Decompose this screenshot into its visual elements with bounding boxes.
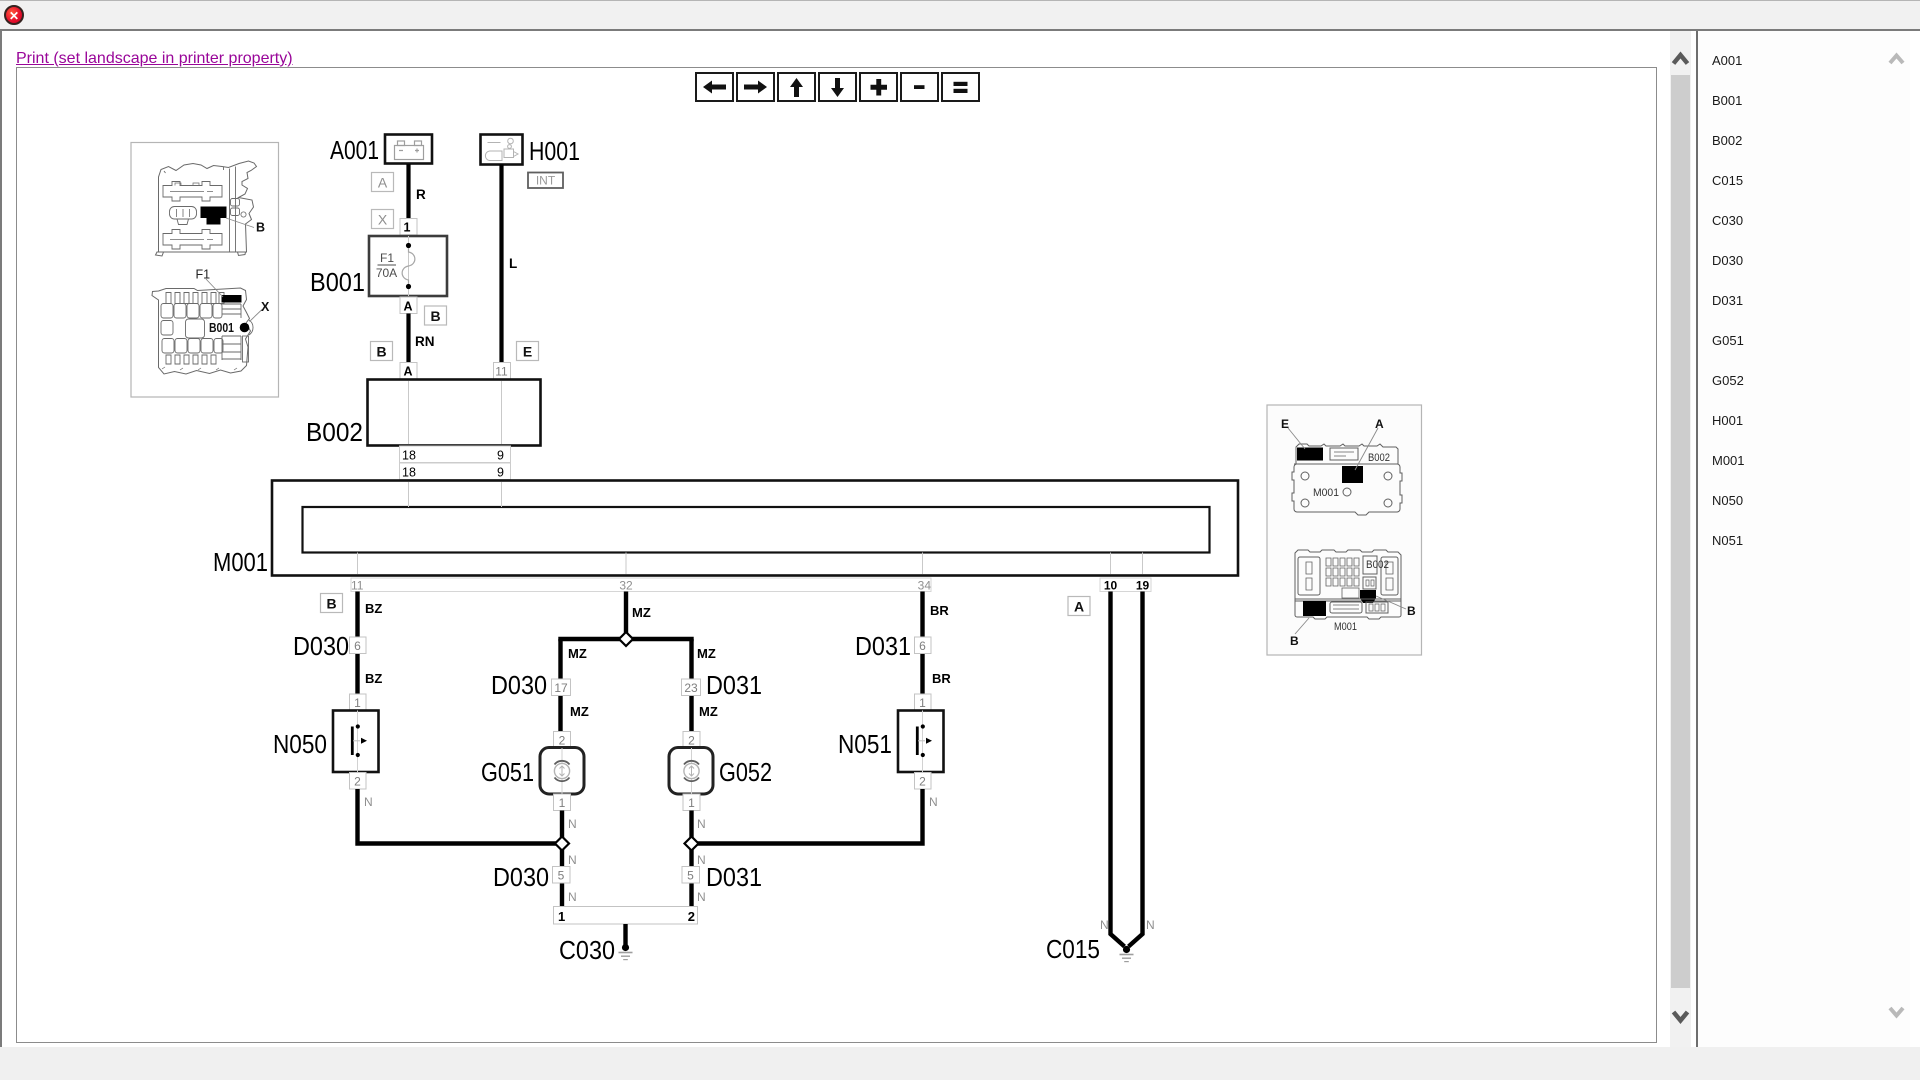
- svg-text:MZ: MZ: [632, 605, 651, 620]
- connector letter box X: [372, 210, 394, 229]
- wire MZ right branch down: [689, 639, 693, 732]
- pin 1 of N051: [915, 694, 932, 711]
- svg-text:INT: INT: [536, 174, 556, 188]
- svg-text:A: A: [1375, 417, 1384, 431]
- connector letter box B (left): [371, 342, 393, 361]
- M001 connector A (black): [1342, 466, 1363, 483]
- svg-text:F1: F1: [196, 268, 211, 282]
- module top view: M001 body: [1292, 464, 1402, 515]
- wire MZ split horizontal: [561, 639, 692, 641]
- pin 23 of D031: [682, 679, 701, 696]
- toolbar arrow down icon: [831, 78, 844, 97]
- pin 6 of D031: [915, 637, 932, 654]
- svg-text:B: B: [326, 596, 336, 612]
- svg-text:N: N: [697, 817, 706, 831]
- fuse box B001: [369, 236, 447, 296]
- junction node diamond (right N): [685, 837, 699, 851]
- switch N051: [898, 711, 944, 773]
- pin 2 of G051: [554, 732, 571, 749]
- svg-text:D031: D031: [706, 672, 762, 700]
- toolbar equals icon: [954, 82, 968, 93]
- toolbar arrow left icon: [703, 81, 726, 94]
- junction node diamond (MZ): [619, 632, 633, 646]
- battery A001: [385, 135, 432, 164]
- svg-text:18: 18: [402, 449, 416, 463]
- svg-text:B: B: [1290, 634, 1299, 648]
- pin 11 of B002: [494, 363, 511, 380]
- svg-text:G051: G051: [481, 759, 534, 787]
- svg-text:1: 1: [558, 909, 565, 924]
- svg-text:B002: B002: [1368, 452, 1390, 464]
- svg-text:5: 5: [687, 869, 694, 883]
- svg-text:BR: BR: [930, 603, 949, 618]
- toolbar minus icon: [914, 85, 925, 89]
- M001 connector B (black): [1303, 601, 1326, 616]
- svg-text:E: E: [523, 344, 532, 360]
- wire B001 to B002 pin A: [406, 314, 410, 364]
- svg-text:M001: M001: [1313, 487, 1339, 499]
- svg-text:A001: A001: [330, 137, 379, 165]
- svg-text:N: N: [1146, 918, 1155, 932]
- svg-text:2: 2: [688, 734, 695, 748]
- fusebox view: B002 with fuses: [1295, 550, 1401, 601]
- pin 1 of G051: [554, 794, 571, 811]
- svg-text:N: N: [568, 817, 577, 831]
- wire C030 to ground: [623, 924, 627, 946]
- svg-text:32: 32: [619, 579, 633, 593]
- B002 output pin row 18 / 9: [400, 446, 511, 463]
- B001 side view drawing: [156, 161, 257, 256]
- pin 1 of G052: [683, 794, 700, 811]
- pin A of B002: [400, 363, 417, 380]
- svg-text:H001: H001: [529, 138, 580, 166]
- B002 connector E (black): [1297, 448, 1323, 461]
- svg-text:1: 1: [919, 696, 926, 710]
- toolbar plus icon: [871, 79, 888, 96]
- pointer line B left: [1295, 618, 1309, 634]
- svg-text:B002: B002: [1366, 559, 1389, 571]
- svg-text:N: N: [929, 795, 938, 809]
- svg-text:A: A: [378, 175, 388, 191]
- pin 5 of D031: [682, 867, 700, 884]
- pointer line from F1 label: [206, 279, 223, 297]
- svg-text:N: N: [1100, 918, 1109, 932]
- svg-text:6: 6: [354, 639, 361, 653]
- svg-text:C015: C015: [1046, 936, 1100, 964]
- svg-text:D030: D030: [493, 864, 549, 892]
- svg-text:RN: RN: [415, 334, 435, 349]
- svg-text:D030: D030: [491, 672, 547, 700]
- svg-text:MZ: MZ: [570, 704, 589, 719]
- right inset frame (B002/M001 location views): [1267, 405, 1422, 655]
- M001 bottom pin box 10 19: [1100, 578, 1151, 593]
- connector letter box B (right of B001): [425, 306, 447, 325]
- list panel down chevron: [1890, 1008, 1903, 1016]
- svg-text:M001: M001: [213, 549, 268, 577]
- svg-text:5: 5: [558, 869, 565, 883]
- svg-text:BZ: BZ: [365, 671, 382, 686]
- horn H001: [481, 135, 523, 165]
- svg-text:34: 34: [918, 579, 932, 593]
- svg-text:B: B: [376, 344, 386, 360]
- svg-text:11: 11: [351, 579, 364, 593]
- wire G052 to junction: [689, 811, 693, 908]
- svg-text:6: 6: [919, 639, 926, 653]
- svg-text:9: 9: [497, 466, 504, 480]
- value label F1 / 70A: [376, 251, 397, 280]
- svg-text:B001: B001: [310, 269, 365, 297]
- svg-text:1: 1: [688, 796, 695, 810]
- pointer line to B: [226, 218, 254, 228]
- connector letter box B (pin 11 branch): [321, 594, 343, 613]
- wire M001 pin32 down (MZ): [624, 592, 628, 640]
- svg-text:N: N: [697, 853, 706, 867]
- wire N051 to junction (N): [692, 789, 923, 844]
- wire H001 to B002 pin 11: [499, 165, 503, 364]
- svg-text:D031: D031: [855, 633, 911, 661]
- wire G051 to junction: [560, 811, 564, 908]
- svg-text:19: 19: [1136, 579, 1150, 593]
- svg-text:B001: B001: [209, 320, 234, 335]
- svg-text:N050: N050: [273, 731, 327, 759]
- pointer line E: [1288, 428, 1305, 449]
- switch N050: [333, 711, 379, 773]
- svg-text:23: 23: [684, 681, 698, 695]
- B001 top view fuse F1 (black): [222, 295, 242, 303]
- svg-text:N: N: [568, 853, 577, 867]
- M001 bottom pin strip 11 32 34: [351, 578, 931, 593]
- svg-text:X: X: [261, 300, 270, 314]
- svg-text:2: 2: [919, 775, 926, 789]
- pin 1 of N050: [350, 694, 367, 711]
- lamp G051: [540, 748, 584, 795]
- connector letter box A: [372, 173, 394, 192]
- svg-text:A: A: [1074, 599, 1084, 615]
- fusebox view: M001 strip: [1295, 599, 1401, 619]
- ground C015: [1120, 946, 1134, 962]
- B002 connector B (black): [1360, 590, 1376, 603]
- wire A001 to B001 pin 1: [406, 164, 410, 219]
- svg-text:2: 2: [688, 909, 695, 924]
- left inset frame (B001 location views): [131, 143, 279, 398]
- B001 side view relay (black): [201, 207, 227, 225]
- pin 1 of B001: [400, 219, 417, 236]
- black dot X location: [240, 323, 250, 333]
- svg-text:R: R: [416, 187, 426, 202]
- svg-text:D030: D030: [293, 633, 349, 661]
- svg-text:1: 1: [559, 796, 566, 810]
- pointer line A: [1355, 428, 1378, 470]
- list panel up chevron: [1890, 56, 1903, 64]
- ground C030: [619, 944, 633, 960]
- svg-text:B: B: [1407, 604, 1416, 618]
- svg-text:17: 17: [554, 681, 568, 695]
- svg-text:F1: F1: [380, 251, 394, 265]
- pointer line B right: [1376, 596, 1406, 609]
- junction node diamond (left N): [555, 837, 569, 851]
- svg-text:M001: M001: [1334, 621, 1357, 633]
- scrollbar down chevron: [1674, 1012, 1688, 1021]
- toolbar arrow right icon: [744, 81, 767, 94]
- toolbar arrow up icon: [790, 78, 803, 97]
- svg-text:1: 1: [404, 221, 411, 235]
- toolbar buttons: [696, 73, 979, 101]
- body computer M001: [272, 481, 1238, 576]
- svg-text:B: B: [430, 308, 440, 324]
- junction unit B002: [368, 380, 541, 446]
- M001 input pin row 18 / 9: [400, 463, 511, 480]
- svg-text:X: X: [378, 212, 388, 228]
- svg-text:L: L: [509, 256, 517, 271]
- svg-text:9: 9: [497, 449, 504, 463]
- wire M001 pin10 to C015 (N): [1111, 592, 1125, 947]
- svg-text:A: A: [403, 300, 412, 314]
- connector letter box A (pins 10/19 branch): [1068, 597, 1090, 616]
- INT box: [528, 173, 563, 189]
- pin 17 of D030: [552, 679, 571, 696]
- pin 2 of N051: [915, 773, 932, 790]
- lamp G052: [669, 748, 713, 795]
- module top view: B002 upper: [1296, 444, 1398, 464]
- svg-text:N: N: [697, 890, 706, 904]
- svg-text:MZ: MZ: [697, 646, 716, 661]
- svg-text:2: 2: [354, 775, 361, 789]
- svg-text:B: B: [256, 221, 265, 235]
- svg-text:70A: 70A: [376, 266, 397, 280]
- pointer line to X: [250, 310, 263, 322]
- svg-text:A: A: [403, 365, 412, 379]
- B001 top view drawing: [152, 288, 251, 374]
- wire M001 pin34 to N051 (BR): [920, 592, 924, 696]
- pin 5 of D030: [553, 867, 571, 884]
- connector strip C030: [554, 907, 698, 925]
- pin 2 of N050: [350, 773, 367, 790]
- wire M001 pin19 to C015 (N): [1129, 592, 1143, 947]
- svg-text:18: 18: [402, 466, 416, 480]
- pin 6 of D030: [350, 637, 367, 654]
- svg-text:10: 10: [1104, 579, 1118, 593]
- svg-text:11: 11: [495, 365, 508, 379]
- connector letter box E: [517, 342, 539, 361]
- pin A of B001: [400, 297, 417, 314]
- wire M001 pin11 to N050 (BZ): [355, 592, 359, 696]
- svg-text:N: N: [364, 795, 373, 809]
- svg-text:BR: BR: [932, 671, 951, 686]
- svg-text:N: N: [568, 890, 577, 904]
- scrollbar up chevron: [1674, 55, 1688, 64]
- svg-text:N051: N051: [838, 731, 892, 759]
- svg-text:BZ: BZ: [365, 601, 382, 616]
- wire N050 to junction (N): [358, 789, 563, 844]
- svg-text:G052: G052: [719, 759, 772, 787]
- svg-text:C030: C030: [559, 937, 615, 965]
- wire MZ left branch down: [558, 639, 562, 732]
- fuse F1 70A element: [402, 243, 415, 289]
- svg-text:MZ: MZ: [699, 704, 718, 719]
- svg-text:1: 1: [354, 696, 361, 710]
- svg-text:E: E: [1281, 417, 1289, 431]
- pin 2 of G052: [683, 732, 700, 749]
- svg-text:B002: B002: [306, 419, 363, 447]
- svg-text:MZ: MZ: [568, 646, 587, 661]
- svg-text:D031: D031: [706, 864, 762, 892]
- svg-text:2: 2: [559, 734, 566, 748]
